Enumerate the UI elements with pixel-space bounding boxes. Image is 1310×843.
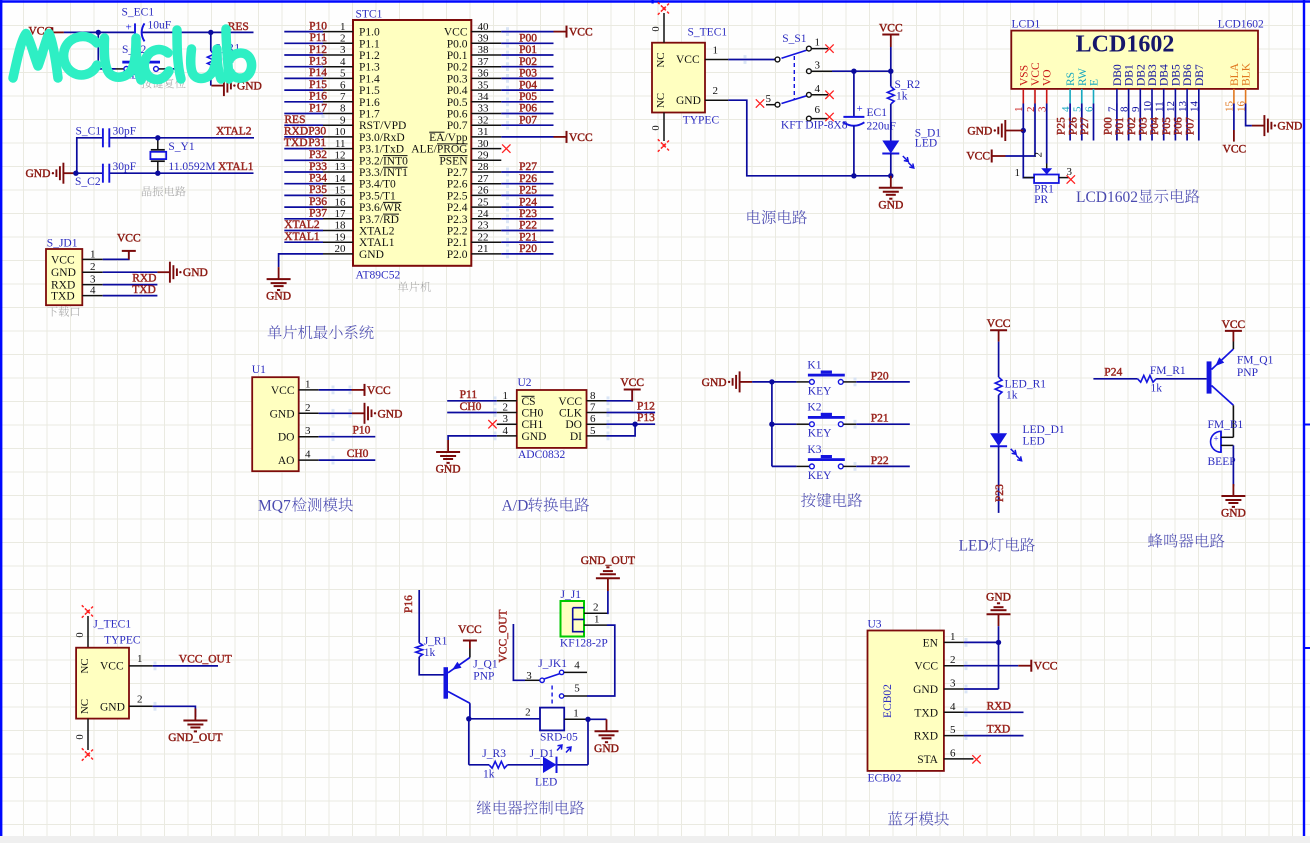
svg-text:MQ7: MQ7 [258, 498, 291, 515]
svg-text:J_TEC1: J_TEC1 [93, 619, 131, 631]
STC1 pin 9 RST/VPD [323, 114, 406, 132]
no-connect X (U2 pin3) [488, 420, 496, 428]
svg-text:EN: EN [923, 637, 939, 649]
svg-text:2: 2 [90, 261, 96, 273]
STC1 pin 36 P0.3 [447, 68, 502, 86]
svg-text:P35: P35 [309, 184, 327, 196]
svg-text:25: 25 [478, 196, 490, 208]
caption 单片机最小系统 [268, 325, 374, 339]
wire net XTAL2 (STC1) [284, 230, 323, 232]
svg-text:NC: NC [79, 658, 91, 673]
J_TEC1 top pin 0 [75, 616, 88, 648]
junction (VSS gnd) [1021, 128, 1026, 133]
wire net P10 [284, 31, 323, 33]
svg-text:20: 20 [335, 243, 347, 255]
wire net P01 [501, 54, 553, 56]
svg-text:14: 14 [335, 173, 347, 185]
svg-text:38: 38 [478, 44, 490, 56]
svg-text:KFT DIP-8X8: KFT DIP-8X8 [781, 119, 848, 131]
svg-text:11.0592M: 11.0592M [168, 161, 215, 173]
junction (VCC / R2 node) [888, 69, 893, 74]
wire U2 pin5 to P13 [607, 424, 636, 436]
net label TXD P31 [284, 137, 326, 149]
svg-text:DB5: DB5 [1170, 64, 1182, 86]
svg-text:LCD1: LCD1 [1012, 19, 1041, 31]
LED S_D1 [882, 128, 941, 176]
svg-text:VCC_OUT: VCC_OUT [179, 653, 232, 665]
svg-text:4: 4 [340, 56, 346, 68]
J_TEC1 pin 2 GND [100, 693, 153, 713]
wire LCD pin 12 [1174, 104, 1176, 141]
wire net P02 [501, 66, 553, 68]
STC1 pin 17 P3.7/RD [323, 208, 399, 226]
STC1 pin 40 VCC [444, 21, 501, 39]
wire net P15 [284, 89, 323, 91]
junction (reset rail right) [208, 30, 213, 35]
wire net P21 [501, 241, 553, 243]
svg-text:P22: P22 [519, 220, 537, 232]
svg-text:33: 33 [478, 103, 490, 115]
chassis ground GND (U3) [986, 592, 1011, 627]
wire P24 to FM_R1 [1093, 378, 1137, 380]
svg-text:1: 1 [1015, 167, 1021, 179]
svg-text:LED: LED [535, 777, 557, 789]
LCD1 pin 3 VO [1037, 69, 1054, 112]
svg-text:DB1: DB1 [1124, 64, 1136, 86]
svg-text:2: 2 [137, 693, 143, 705]
junction (xtal1) [155, 171, 160, 176]
svg-text:VCC: VCC [569, 27, 593, 39]
wire J_J1 pin2 to GND_OUT [606, 591, 609, 613]
svg-text:AO: AO [278, 455, 295, 467]
svg-text:XTAL2: XTAL2 [359, 226, 395, 238]
svg-text:8: 8 [340, 103, 346, 115]
svg-text:RS: RS [1065, 72, 1077, 86]
LCD1 pin 2 VCC [1025, 62, 1042, 112]
no-connect X (S_S1 pin4) [825, 91, 833, 99]
no-connect X (PR1 pin3) [1067, 175, 1075, 183]
svg-text:U1: U1 [252, 364, 266, 376]
STC1 pin 37 P0.2 [447, 56, 502, 74]
svg-text:S_JD1: S_JD1 [47, 237, 78, 249]
svg-text:7: 7 [340, 91, 346, 103]
svg-text:P1.0: P1.0 [359, 27, 380, 39]
wire XTAL1 net (crystal) [76, 172, 254, 174]
LCD1 pin 16 BLK [1235, 62, 1252, 112]
svg-text:21: 21 [478, 243, 489, 255]
J_TEC1 bottom pin 0 [75, 719, 88, 750]
svg-text:VCC: VCC [987, 318, 1011, 330]
connector S_JD1 下载口 [46, 237, 82, 305]
wire net P13 (U2) [607, 423, 656, 425]
svg-text:P07: P07 [519, 114, 537, 126]
svg-text:6: 6 [815, 104, 821, 116]
power port VCC (STC1 pin31) [554, 131, 593, 144]
LCD1 pin 15 BLA [1224, 62, 1241, 112]
LCD1 pin 8 DB1 [1118, 64, 1135, 112]
wire net P12 (U2) [607, 412, 656, 414]
svg-text:P04: P04 [1149, 117, 1161, 135]
svg-text:P0.5: P0.5 [447, 97, 468, 109]
STC1 pin 31 EA/Vpp [429, 126, 501, 144]
wire LCD pin 10 [1151, 104, 1153, 141]
caption LCD1602显示电路 [1076, 189, 1200, 206]
STC1 pin 11 P3.1/TxD [323, 138, 404, 156]
STC1 pin 30 ALE/PROG [411, 138, 501, 156]
caption 电源电路 [747, 210, 806, 224]
no-connect X on STC1 pin 30 [502, 144, 510, 152]
STC1 pin 25 P2.4 [447, 196, 502, 214]
chassis ground GND_OUT (relay) [581, 555, 635, 591]
svg-text:S_C1: S_C1 [76, 125, 102, 137]
svg-text:CS: CS [522, 396, 536, 408]
wire J_TEC1 pin2 to GND_OUT [153, 706, 196, 717]
svg-text:K2: K2 [807, 402, 821, 414]
svg-text:RST/VPD: RST/VPD [359, 120, 406, 132]
wire net P17 [284, 113, 323, 115]
svg-text:P21: P21 [871, 413, 889, 425]
svg-text:28: 28 [478, 161, 490, 173]
connector S_TEC1 TYPEC [652, 27, 727, 113]
LCD1 pin 6 E [1083, 79, 1100, 112]
svg-text:VCC: VCC [458, 624, 482, 636]
power ground GND (crystal) [25, 163, 75, 184]
svg-text:P02: P02 [1126, 117, 1138, 135]
wire net P11 [284, 42, 323, 44]
STC1 pin 35 P0.4 [447, 79, 502, 97]
svg-text:ECB02: ECB02 [882, 684, 894, 718]
svg-text:P25: P25 [1056, 117, 1068, 135]
svg-text:P2.6: P2.6 [447, 179, 468, 191]
no-connect X (S_S1 pin5) [756, 99, 764, 107]
S_JD1 pin 4 TXD [51, 285, 103, 303]
svg-text:VO: VO [1042, 69, 1054, 86]
chassis ground GND (U2) [436, 440, 461, 476]
STC1 pin 24 P2.3 [447, 208, 502, 226]
svg-text:EA/Vpp: EA/Vpp [429, 132, 468, 144]
S_TEC1 pin 1 VCC [676, 45, 728, 67]
svg-text:P00: P00 [1102, 117, 1114, 135]
svg-text:13: 13 [335, 161, 347, 173]
svg-text:XTAL2: XTAL2 [284, 219, 320, 231]
svg-text:GND: GND [986, 592, 1011, 604]
svg-text:GND_OUT: GND_OUT [168, 732, 222, 744]
svg-text:36: 36 [478, 68, 490, 80]
power port VCC (power circuit) [879, 22, 903, 47]
wire net P22 [501, 230, 553, 232]
svg-text:DO: DO [565, 419, 582, 431]
svg-text:39: 39 [478, 33, 490, 45]
svg-text:BLK: BLK [1241, 62, 1253, 86]
resistor LED_R1 1k [995, 377, 1046, 401]
wire S_TEC1 pin1 to switch [728, 59, 775, 61]
svg-text:VCC: VCC [1223, 144, 1247, 156]
svg-text:4: 4 [950, 701, 956, 713]
svg-text:P04: P04 [519, 79, 537, 91]
svg-text:P24: P24 [1104, 367, 1122, 379]
svg-text:VCC: VCC [367, 385, 391, 397]
wire collector to coil node [469, 703, 471, 719]
STC1 pin 29 PSEN [439, 150, 501, 168]
svg-text:VCC: VCC [444, 27, 468, 39]
svg-text:3: 3 [305, 425, 311, 437]
caption 继电器控制电路 [477, 800, 584, 814]
power ground GND (LCD) [967, 120, 1023, 141]
wire net P10 (U1) [319, 436, 376, 438]
svg-text:XTAL2: XTAL2 [216, 126, 252, 138]
svg-text:P07: P07 [1184, 117, 1196, 135]
svg-text:RXD: RXD [914, 731, 938, 743]
LCD1 pin 13 DB6 [1177, 64, 1194, 112]
svg-text:J_JK1: J_JK1 [538, 658, 567, 670]
svg-text:P1.1: P1.1 [359, 38, 380, 50]
svg-text:+: + [126, 22, 132, 34]
wire U2 pin4 to GND [448, 436, 497, 440]
power port VCC (S_JD1) [117, 233, 141, 260]
svg-text:PNP: PNP [1237, 367, 1258, 379]
svg-text:0: 0 [75, 632, 86, 637]
svg-text:GND: GND [967, 126, 992, 138]
power port VCC (U2) [620, 377, 644, 401]
svg-text:3: 3 [815, 59, 821, 71]
svg-text:23: 23 [478, 220, 490, 232]
svg-text:P10: P10 [309, 20, 327, 32]
wire FM_R1 to base [1156, 378, 1207, 380]
comment 按键复位 [141, 78, 185, 88]
wire U3 GND to bus [964, 688, 999, 690]
svg-text:GND: GND [594, 743, 619, 755]
svg-text:TXD: TXD [284, 137, 308, 149]
wire net P36 [284, 206, 323, 208]
power port VCC (reset rail) [29, 26, 64, 38]
junction (U2 DO/DI tie) [632, 422, 637, 427]
svg-text:2: 2 [1033, 152, 1045, 158]
LED J_D1 [530, 745, 571, 789]
LCD1 pin 7 DB0 [1107, 64, 1124, 112]
capacitor EC1 220uF [843, 71, 896, 176]
svg-text:P32: P32 [309, 149, 327, 161]
svg-text:4: 4 [90, 285, 96, 297]
resistor FM_R1 1k [1138, 365, 1186, 395]
svg-text:0: 0 [651, 125, 662, 130]
svg-text:P0.2: P0.2 [447, 62, 468, 74]
capacitor S_EC1 10uF [122, 7, 172, 42]
wire LCD pin 5 [1081, 104, 1083, 141]
wire VCC_OUT to switch common [513, 624, 525, 680]
chassis ground GND (buzzer) [1221, 484, 1246, 520]
LCD1 pin 10 DB3 [1142, 64, 1159, 112]
svg-text:KF128-2P: KF128-2P [560, 638, 608, 650]
svg-text:P13: P13 [309, 56, 327, 68]
wire U3 EN to gnd bus [964, 641, 999, 643]
caption 按键电路 [801, 493, 862, 507]
svg-text:VCC: VCC [1034, 661, 1058, 673]
wire net P25 [501, 194, 553, 196]
svg-text:STA: STA [917, 754, 938, 766]
svg-text:3: 3 [950, 678, 956, 690]
svg-text:GND: GND [913, 684, 938, 696]
STC1 pin 13 P3.3/INT1 [323, 161, 408, 179]
U2 pin 7 CLK [559, 402, 607, 420]
svg-text:P33: P33 [309, 161, 327, 173]
svg-text:XTAL1: XTAL1 [218, 161, 254, 173]
svg-text:GND: GND [359, 249, 384, 261]
svg-text:1: 1 [594, 614, 600, 626]
wire S_JD1 pin2 to GND [103, 271, 158, 273]
svg-text:30pF: 30pF [113, 161, 137, 173]
svg-text:GND: GND [51, 267, 76, 279]
chassis ground GND (power circuit) [878, 176, 903, 212]
svg-text:+: + [1214, 434, 1219, 444]
svg-text:P0.0: P0.0 [447, 38, 468, 50]
svg-text:P1.5: P1.5 [359, 85, 380, 97]
svg-text:P10: P10 [353, 425, 371, 437]
U3 pin 1 EN [923, 631, 964, 650]
STC1 pin name overlines [383, 156, 408, 215]
svg-text:3: 3 [503, 413, 509, 425]
wire LCD VSS to pot pin1 [1023, 104, 1034, 178]
junction (xtal2) [155, 135, 160, 140]
svg-text:PSEN: PSEN [439, 155, 468, 167]
svg-text:19: 19 [335, 231, 347, 243]
STC1 right name overlines [429, 132, 467, 155]
LCD1 pin 5 RW [1072, 68, 1089, 112]
svg-text:GND: GND [378, 408, 403, 420]
junction (crystal gnd) [73, 171, 78, 176]
U1 pin 3 DO [278, 425, 319, 444]
svg-text:VCC: VCC [879, 22, 903, 34]
wire TXD (S_JD1) [103, 295, 158, 297]
LCD1 pin 4 RS [1060, 72, 1077, 112]
svg-text:2: 2 [340, 33, 346, 45]
svg-text:P2.5: P2.5 [447, 190, 468, 202]
svg-text:GND: GND [25, 168, 50, 180]
svg-text:37: 37 [478, 56, 490, 68]
svg-text:0: 0 [75, 734, 86, 739]
resistor S_R2 1k [887, 71, 920, 140]
wire freewheel branch [469, 719, 588, 765]
svg-text:A/D: A/D [502, 498, 529, 515]
svg-text:P23: P23 [994, 484, 1006, 502]
S_TEC1 bottom pin 0 [651, 113, 664, 142]
svg-text:DI: DI [570, 431, 582, 443]
STC1 pin 20 GND [323, 243, 384, 261]
U2 CS overline [522, 395, 535, 397]
wire net P26 [501, 183, 553, 185]
svg-text:5: 5 [950, 724, 956, 736]
svg-text:1: 1 [137, 653, 143, 665]
svg-text:CH1: CH1 [522, 419, 544, 431]
svg-text:10uF: 10uF [148, 20, 172, 32]
svg-text:DB2: DB2 [1135, 64, 1147, 86]
wire net P22 [856, 465, 910, 467]
svg-text:P01: P01 [1114, 117, 1126, 135]
svg-text:1: 1 [340, 21, 346, 33]
wire U3 VCC [964, 665, 1018, 667]
svg-text:PR: PR [1034, 194, 1048, 206]
svg-text:3: 3 [340, 44, 346, 56]
svg-text:K1: K1 [807, 359, 821, 371]
svg-text:J_D1: J_D1 [530, 748, 555, 760]
svg-text:VCC: VCC [558, 396, 582, 408]
svg-text:TYPEC: TYPEC [683, 115, 720, 127]
svg-text:LED_D1: LED_D1 [1023, 424, 1065, 436]
wire net P03 [501, 77, 553, 79]
STC1 pin 2 P1.1 [323, 33, 380, 51]
caption LED灯电路 [959, 537, 1035, 554]
svg-text:P12: P12 [309, 44, 327, 56]
capacitor S_C1 30pF [76, 125, 137, 147]
svg-text:+: + [857, 103, 863, 115]
svg-text:GND: GND [1221, 508, 1246, 520]
wire net P12 [284, 54, 323, 56]
svg-text:P20: P20 [519, 243, 537, 255]
svg-text:S_C2: S_C2 [75, 176, 101, 188]
wire switch3 to power node [832, 70, 891, 72]
chassis ground GND_OUT (J_TEC1) [183, 709, 207, 732]
power port VCC (LCD backlight) [1223, 130, 1247, 156]
STC1 pin 26 P2.5 [447, 185, 502, 203]
svg-text:GND: GND [702, 377, 727, 389]
svg-text:1: 1 [90, 248, 96, 260]
wire net P16 [284, 101, 323, 103]
svg-text:6: 6 [950, 747, 956, 759]
svg-text:9: 9 [340, 114, 346, 126]
svg-text:BLA: BLA [1229, 62, 1241, 86]
svg-text:RXD: RXD [132, 273, 156, 285]
IC U3 ECB02 [868, 619, 944, 785]
LCD1 pin 14 DB7 [1189, 64, 1206, 112]
STC1 pin 38 P0.1 [447, 44, 502, 62]
svg-text:10: 10 [335, 126, 347, 138]
power port VCC (U3) [1018, 660, 1057, 673]
S_TEC1 top pin 0 [651, 13, 664, 43]
svg-text:P26: P26 [1067, 117, 1079, 135]
svg-text:VCC: VCC [620, 377, 644, 389]
push button S_S2 KEY [122, 44, 160, 81]
svg-text:5: 5 [574, 683, 580, 695]
svg-text:P16: P16 [403, 595, 415, 613]
power port VCC (U1) [352, 384, 391, 397]
svg-text:KEY: KEY [808, 385, 832, 397]
wire net P32 [284, 159, 323, 161]
svg-text:P05: P05 [519, 91, 537, 103]
LCD1 pin 9 DB2 [1130, 64, 1147, 112]
STC1 pin 21 P2.0 [447, 243, 502, 261]
svg-text:P2.1: P2.1 [447, 237, 468, 249]
wire switch5 to J_J1 pin1 [587, 625, 615, 696]
svg-text:VCC: VCC [117, 233, 141, 245]
svg-text:P1.7: P1.7 [359, 109, 380, 121]
svg-text:FM_R1: FM_R1 [1150, 365, 1186, 377]
svg-text:P1.3: P1.3 [359, 62, 380, 74]
buzzer FM_B1 BEEP [1208, 419, 1244, 468]
svg-text:GND: GND [522, 431, 547, 443]
push button K1 KEY [796, 359, 856, 397]
svg-text:LED: LED [915, 138, 937, 150]
svg-text:2: 2 [593, 602, 599, 614]
wire net P35 [284, 194, 323, 196]
svg-text:P1.4: P1.4 [359, 73, 380, 85]
svg-text:0: 0 [651, 26, 662, 31]
no-connect X (J_TEC1 bottom) [82, 748, 94, 760]
resistor J_R3 1k [482, 748, 507, 781]
svg-text:GND: GND [436, 464, 461, 476]
LED LED_D1 [990, 424, 1065, 461]
wire LCD pin 11 [1163, 104, 1165, 141]
svg-text:2: 2 [713, 85, 719, 97]
svg-text:1: 1 [815, 37, 821, 49]
